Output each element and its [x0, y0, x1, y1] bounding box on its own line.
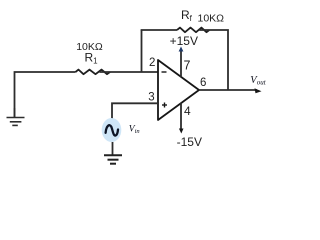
resistor Rf (10KΩ) [177, 8, 224, 32]
svg-text:4: 4 [184, 104, 191, 118]
ground (left, input reference) [7, 108, 25, 125]
source Vin (AC sine source) [102, 118, 140, 142]
power -15V (pin 4 supply, arrow down) [177, 103, 202, 150]
svg-text:3: 3 [148, 92, 154, 104]
svg-text:+15V: +15V [170, 34, 198, 48]
wire: feedback top right and right vertical down to output node [199, 30, 228, 90]
ground (below Vin source) [104, 155, 122, 163]
wire: left vertical from ground up and horizontal to R1 [15, 72, 76, 118]
resistor R1 (10KΩ) [76, 41, 111, 74]
power +15V (pin 7 supply, arrow up) [170, 34, 198, 77]
wire: output from pin 6 with arrow [199, 88, 262, 93]
wire: Vin source to ground [112, 142, 114, 155]
wire: feedback left vertical (junction with input node) [141, 30, 143, 72]
op-amp U1 [158, 60, 199, 120]
svg-text:10KΩ: 10KΩ [198, 13, 225, 25]
wire: feedback top, left of Rf [141, 29, 177, 31]
svg-text:7: 7 [184, 58, 191, 72]
svg-text:2: 2 [149, 57, 155, 69]
wire: R1 to inverting input node [100, 71, 159, 73]
svg-text:-15V: -15V [177, 135, 202, 149]
svg-text:6: 6 [200, 77, 206, 89]
wire: non-inverting input from Vin source [112, 103, 158, 118]
